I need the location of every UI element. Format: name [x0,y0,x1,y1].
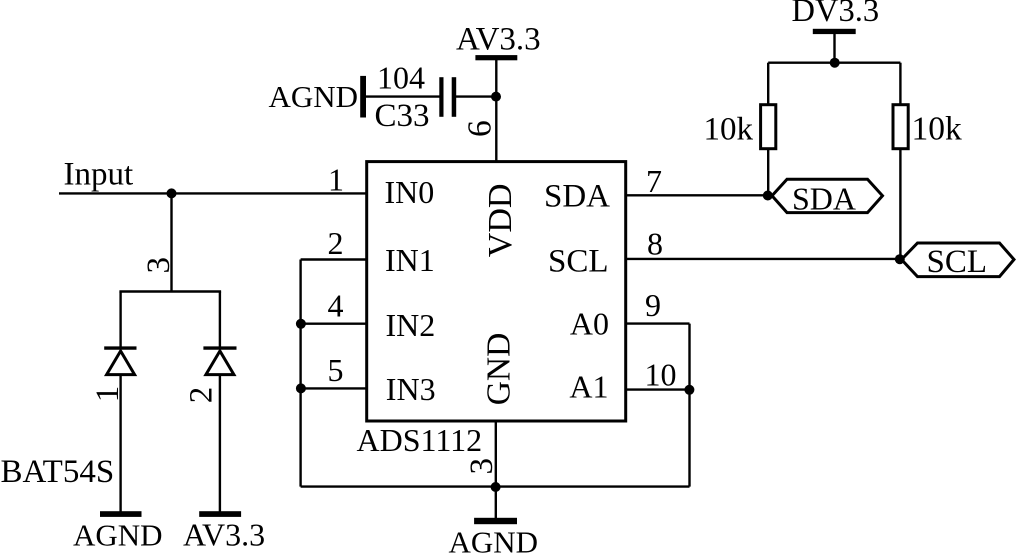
wire pin 4 IN2 [301,323,366,325]
junction VDD node [491,92,501,102]
svg-text:7: 7 [646,163,662,199]
svg-text:SDA: SDA [544,179,610,215]
wire input node to BAT54S common [170,193,172,291]
wire pin 9 A0 [627,322,690,324]
svg-text:A1: A1 [569,369,608,405]
wire pin 10 A1 [627,388,690,390]
IC U1 ADS1112 body [367,162,626,421]
diode D1 cathode bar [104,346,136,349]
wire IN1 branch down [299,260,301,487]
svg-text:Input: Input [64,157,134,193]
wire pin 5 IN3 [301,387,366,389]
wire AV3.3 bar to VDD node [495,59,497,97]
svg-text:9: 9 [645,287,661,323]
junction SDA node [763,191,773,201]
svg-text:8: 8 [647,226,663,262]
svg-text:DV3.3: DV3.3 [792,0,880,29]
wire R1 to SDA node [767,150,769,196]
junction IN3 node [296,383,306,393]
resistor R1 body [761,105,776,149]
junction input node [167,188,177,198]
wire rail to resistor R1 [767,63,769,104]
junction DV3.3 node [830,58,840,68]
wire rail to resistor R2 [899,63,901,104]
svg-text:SCL: SCL [548,244,609,280]
power port AGND bar (IC GND) [474,518,517,524]
svg-text:AGND: AGND [449,525,539,555]
svg-text:IN3: IN3 [386,371,436,407]
resistor R2 body [893,105,908,149]
wire pin 3 GND vertical [495,421,497,487]
wire VDD node to pin 6 [495,97,497,162]
svg-text:2: 2 [328,225,344,261]
wire to diode D1 cathode [119,292,121,348]
wire pullup rail [768,62,900,64]
junction A1 node [684,385,694,395]
svg-text:AV3.3: AV3.3 [456,21,541,57]
power port AGND bar (BAT54S) [100,511,142,517]
diode D1 triangle [107,351,135,375]
svg-text:AGND: AGND [73,518,163,553]
svg-text:ADS1112: ADS1112 [357,422,483,458]
power port AV3.3 bar (BAT54S) [199,511,241,517]
svg-text:IN1: IN1 [385,242,435,278]
wire to diode D2 cathode [219,292,221,348]
power bar DV3.3 [813,29,856,34]
wire D1 anode to AGND port [119,375,121,512]
svg-text:10k: 10k [704,112,754,148]
svg-text:6: 6 [461,120,498,137]
wire C33 to VDD node [456,95,496,97]
capacitor C33 right plate [452,77,457,117]
svg-text:SCL: SCL [927,244,988,280]
svg-text:3: 3 [141,257,177,274]
svg-text:4: 4 [328,287,344,323]
wire DV3.3 bar down [833,33,835,63]
net flag SCL hexagon [902,243,1015,277]
wire GND node to AGND bar [495,487,497,519]
svg-text:104: 104 [377,60,425,96]
wire bottom rail [301,485,690,487]
wire Input horizontal [59,192,366,194]
wire A0 branch down [688,324,690,487]
wire pin 2 IN1 [301,258,366,260]
wire pin 7 SDA [627,194,771,196]
diode D2 cathode bar [203,346,236,349]
power bar AV3.3 (top) [475,55,517,60]
junction SCL node [895,254,905,264]
svg-text:10k: 10k [912,111,963,148]
svg-text:1: 1 [328,162,344,198]
diode D2 triangle [206,351,234,375]
svg-text:AGND: AGND [269,79,359,114]
wire D2 anode to AV3.3 port [219,375,221,512]
svg-text:VDD: VDD [482,184,519,258]
wire R2 to SCL node [899,150,901,259]
svg-text:1: 1 [90,386,126,403]
wire pin 8 SCL [627,258,901,260]
wire BAT54S top rail [119,290,221,292]
svg-text:5: 5 [328,352,344,388]
svg-text:GND: GND [481,333,518,406]
svg-text:IN0: IN0 [385,174,435,210]
svg-text:2: 2 [184,387,220,404]
capacitor C33 left plate [439,77,443,117]
svg-text:AV3.3: AV3.3 [183,517,265,553]
junction IN2 node [296,319,306,329]
svg-text:BAT54S: BAT54S [1,454,115,490]
svg-text:A0: A0 [570,306,609,342]
power port AGND bar (C33) [360,76,366,118]
net flag SDA hexagon [772,179,883,212]
svg-text:3: 3 [464,458,500,475]
svg-text:10: 10 [645,356,677,392]
svg-text:C33: C33 [375,98,430,134]
svg-text:SDA: SDA [792,181,856,217]
svg-text:IN2: IN2 [386,307,436,343]
junction GND node [491,482,501,492]
wire AGND port to capacitor C33 [366,95,440,97]
